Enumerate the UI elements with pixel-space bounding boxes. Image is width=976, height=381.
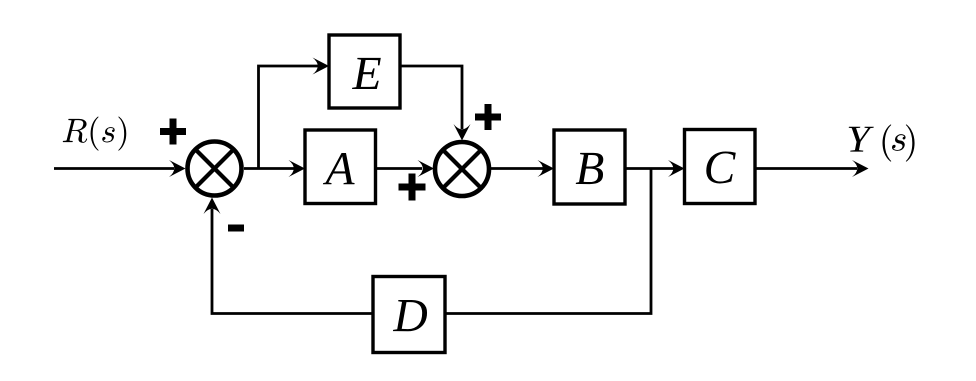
wire B to block C with branch node [625,160,685,177]
wire feedback branch down from node after B through D [446,169,651,314]
block B [554,130,625,204]
wire branch up from S1 output to block E [259,58,330,169]
plus sign at S2 left input [399,174,426,201]
minus sign at S1 feedback input [228,225,244,232]
wire S1 to block A [244,160,305,177]
block A [305,130,376,204]
node R(s) input label [63,117,126,151]
wire input R(s) to summing junction S1 [54,160,186,177]
summing junction S2 [435,142,489,196]
block C [685,130,756,204]
block E [329,35,400,108]
wire D output left and up into S1 [204,198,374,314]
wire E output down to summing junction S2 [400,66,471,141]
block D [373,277,445,353]
wire A to summing junction S2 [376,160,435,177]
plus sign at S1 input [160,119,186,145]
wire S2 to block B [490,160,555,177]
wire C output to Y(s) [755,160,869,177]
node Y(s) output label [849,125,915,162]
plus sign at S2 top input [475,104,501,130]
summing junction S1 [188,142,242,196]
